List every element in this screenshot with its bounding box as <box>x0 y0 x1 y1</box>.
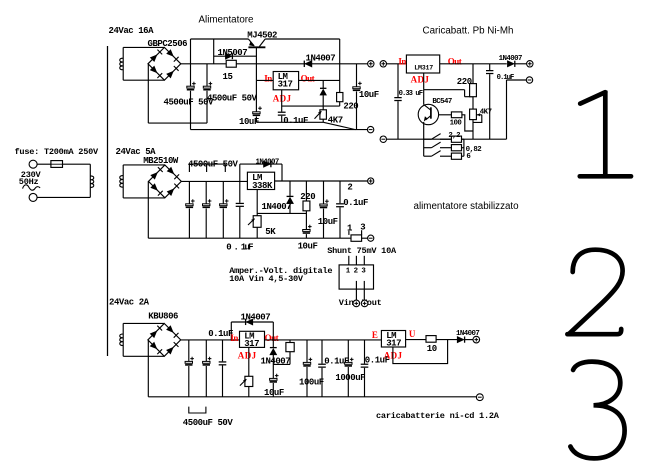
wire 0.33uF lower <box>397 101 399 139</box>
big digit 1 <box>580 91 631 177</box>
shunt body <box>351 235 362 241</box>
capacitor 100uF <box>303 358 312 367</box>
wire U5 out <box>406 339 426 341</box>
svg-text:E: E <box>372 330 378 340</box>
svg-text:2,2: 2,2 <box>448 132 460 140</box>
svg-text:0.1uF: 0.1uF <box>497 74 514 82</box>
svg-text:5K: 5K <box>265 227 276 237</box>
wire T2 left vertical <box>122 165 124 198</box>
terminal mid plus <box>368 178 374 184</box>
wire 4K7 wiper tail <box>473 115 481 123</box>
capacitor bot 0.1uF a <box>318 364 326 368</box>
wire In U1 <box>256 79 273 81</box>
svg-text:Shunt 75mV 10A: Shunt 75mV 10A <box>327 246 397 256</box>
terminal plus output 1 <box>368 61 374 67</box>
svg-text:24Vac 2A: 24Vac 2A <box>109 297 150 307</box>
wire pot U4 bottom <box>248 387 250 397</box>
svg-text:10uF: 10uF <box>318 217 338 227</box>
wire charger in <box>387 63 407 65</box>
wire switch stub 2 <box>424 147 432 149</box>
wire 4K7 U2 link <box>472 97 474 109</box>
wire shunt to minus <box>362 237 368 239</box>
svg-text:MB2510W: MB2510W <box>143 156 179 166</box>
wire mid cap2 upper <box>205 181 207 203</box>
wire bypass U4 left <box>230 322 232 340</box>
bracket tick 1 <box>188 164 190 172</box>
bridge rectifier MB2510W <box>149 165 182 198</box>
svg-text:0.33 uF: 0.33 uF <box>399 90 423 98</box>
bracket tick 3 <box>224 164 226 172</box>
wire botB 0.1uF upper <box>364 340 366 364</box>
capacitor mid 4500uF #2 <box>203 199 212 208</box>
capacitor 10uF output <box>353 82 362 92</box>
wire rail to U4 <box>181 339 240 341</box>
potentiometer U4 wiper <box>240 379 247 385</box>
diode 1N4007 charger out <box>507 61 514 67</box>
svg-text:4500uF 50V: 4500uF 50V <box>183 418 234 428</box>
capacitor 0.1uF charger <box>486 70 493 74</box>
svg-text:Out: Out <box>265 333 279 343</box>
wire 100uF lower <box>306 367 308 397</box>
wire botA 0.1uF upper <box>321 340 323 364</box>
wire 0.1uF lower <box>281 116 283 123</box>
wire 1000uF lower <box>347 367 349 397</box>
svg-text:BC547: BC547 <box>432 98 452 106</box>
wire 10uF out U3 upper <box>323 181 325 204</box>
wire cap1 lower <box>190 91 192 130</box>
wire 0.33uF upper <box>397 64 399 97</box>
wire res right 2 <box>462 147 464 149</box>
wire res common right <box>463 139 465 156</box>
terminal bot plus <box>473 336 480 343</box>
potentiometer 4K7 U2 wiper <box>477 113 482 116</box>
svg-text:1N4007: 1N4007 <box>499 55 522 63</box>
wire switch stub 3 <box>424 155 432 157</box>
svg-text:LM317: LM317 <box>414 65 433 72</box>
svg-text:1N4007: 1N4007 <box>256 159 279 167</box>
terminal charger input plus <box>380 61 386 67</box>
wire bot cap1 upper <box>188 340 190 362</box>
wire mains top a <box>37 163 51 165</box>
wire bridge2 minus drop <box>147 181 149 238</box>
potentiometer 4K7 U1 wiper <box>315 111 322 119</box>
diode 1N5007 <box>225 53 232 59</box>
wire riser to rail A at x190.5 <box>190 39 192 64</box>
resistor U4 body <box>286 343 294 352</box>
wire zener to ADJ line <box>322 95 324 110</box>
wire Out U1 <box>299 79 340 81</box>
wire 220 U2 top <box>472 64 474 84</box>
wire switch res link 2 <box>440 147 451 149</box>
wire bot 0.1uF upper <box>222 340 224 361</box>
wire Q1 emitter down <box>423 122 425 139</box>
resistor 220 U3 body <box>303 201 310 211</box>
svg-text:50Hz: 50Hz <box>19 177 39 187</box>
resistor bank R1 body <box>451 136 461 142</box>
svg-text:In: In <box>230 333 238 343</box>
wire mains top b <box>63 163 91 165</box>
wire mid cap3 upper <box>222 181 224 203</box>
wire 10 to diode <box>436 339 457 341</box>
capacitor 1000uF <box>345 358 354 367</box>
transistor Q1 BC547 <box>418 104 438 124</box>
svg-text:fuse: T200mA 250V: fuse: T200mA 250V <box>15 147 100 157</box>
terminal charger out plus <box>527 61 533 67</box>
divider line <box>107 46 109 356</box>
wire bot cap2 upper <box>205 340 207 362</box>
wire 0.1uF out drop <box>489 64 491 70</box>
wire diagonal to minus rail <box>323 122 355 129</box>
meter body <box>339 265 373 289</box>
wire T3 left vertical <box>122 323 124 356</box>
wire res U4 bottom <box>289 352 291 365</box>
terminal mains bottom <box>29 193 37 201</box>
wire ADJ node line U1 <box>282 105 340 107</box>
svg-text:GBPC2506: GBPC2506 <box>148 39 188 49</box>
svg-text:220: 220 <box>457 77 472 87</box>
bracket bot caps <box>189 407 206 413</box>
wire to charger plus <box>515 63 527 65</box>
wire switch stub 1 <box>424 138 432 140</box>
wire pot bottom <box>322 119 324 122</box>
svg-text:100: 100 <box>450 119 463 127</box>
wire charger bottom rail <box>387 138 507 140</box>
coil T3 secondary <box>120 334 123 346</box>
terminal mid minus <box>368 235 374 241</box>
capacitor mid 4500uF #3 <box>220 199 229 208</box>
capacitor C1 4500uF <box>187 82 196 91</box>
wire 100 to pot bottom <box>462 115 473 131</box>
wire meter out3 <box>363 281 365 300</box>
wire bot ground rail <box>148 396 476 398</box>
wire 5K bottom <box>256 227 258 238</box>
svg-text:10: 10 <box>427 344 437 354</box>
wire switch common <box>423 139 425 156</box>
svg-text:MJ4502: MJ4502 <box>247 31 277 41</box>
coil T2 secondary <box>120 176 123 188</box>
wire 10uF ADJ lower <box>305 234 307 238</box>
svg-text:alimentatore stabilizzato: alimentatore stabilizzato <box>414 201 520 212</box>
resistor 10 body <box>426 336 436 343</box>
wire mid cap1 upper <box>188 181 190 203</box>
wire meter in1 <box>348 256 350 265</box>
wire cap2 lower <box>206 91 208 123</box>
wire D U4 top <box>272 322 274 348</box>
svg-text:2: 2 <box>347 182 352 192</box>
wire bot 0.1uF lower <box>222 366 224 397</box>
potentiometer 4K7 U2 body <box>470 109 477 120</box>
wire mains right vertical <box>89 164 91 197</box>
svg-text:1000uF: 1000uF <box>335 373 365 383</box>
terminal charger out minus <box>526 77 532 83</box>
wire diode row <box>214 55 257 57</box>
wire bot cap2 lower <box>205 366 207 397</box>
capacitor 10uF U4 <box>270 374 279 383</box>
capacitor 10uF ADJ U3 <box>303 225 312 234</box>
svg-text:In: In <box>264 73 272 83</box>
wire cap1 4500uF vertical <box>190 64 192 86</box>
wire res U4 top <box>289 340 291 343</box>
wire bridge minus drop <box>147 64 149 123</box>
capacitor 10uF out U3 <box>320 199 329 208</box>
switch lever 3 <box>432 151 441 157</box>
wire U4 out rail <box>265 339 382 341</box>
wire charger minus <box>507 79 527 81</box>
wire ADJ pin U3 <box>256 190 258 216</box>
terminal charger minus left <box>380 136 386 142</box>
wire bridge3 minus drop <box>147 340 149 397</box>
wire switch res link 1 <box>440 138 451 140</box>
diode 1N4007 U4 out <box>270 348 277 355</box>
wire ADJ line U3 <box>257 212 306 214</box>
svg-text:Caricabatt. Pb Ni-Mh: Caricabatt. Pb Ni-Mh <box>423 26 514 37</box>
wire 10uF U4 lower <box>272 383 274 397</box>
switch lever 2 <box>432 142 441 148</box>
wire cap2 4500uF vertical <box>206 64 208 86</box>
wire D up link <box>289 181 291 196</box>
resistor bank R2 body <box>451 145 461 151</box>
capacitor mid 4500uF #1 <box>186 199 195 208</box>
wire mid 0.1uF upper <box>239 164 241 203</box>
wire ADJ horiz U2 <box>424 89 465 91</box>
svg-text:0.1uF: 0.1uF <box>208 329 233 339</box>
symbol AC sine <box>23 185 41 190</box>
svg-text:Out: Out <box>448 56 462 66</box>
wire T2 top <box>123 164 165 166</box>
svg-text:338K: 338K <box>252 181 273 191</box>
regulator U2 LM317 body <box>406 55 439 73</box>
svg-text:317: 317 <box>386 339 401 349</box>
wire rail to U3 <box>181 180 247 182</box>
capacitor bot 0.1uF in <box>219 361 227 365</box>
terminal mains top <box>29 160 37 168</box>
wire meter out2 <box>355 281 357 300</box>
capacitor 10uF input <box>253 106 262 116</box>
diode 1N4007 ADJ U3 <box>287 196 294 203</box>
wire 0.1uF out lower <box>489 74 491 139</box>
capacitor bot 4500uF #1 <box>185 357 194 366</box>
resistor 220 U2 body <box>470 84 477 97</box>
wire ADJ pin U2 <box>423 73 425 90</box>
regulator U5 LM317 body <box>381 331 405 348</box>
diode 1N4007 bot out <box>457 336 464 342</box>
wire mid ground rail <box>148 237 351 239</box>
wire switch res link 3 <box>440 155 451 157</box>
wire output node vertical <box>339 39 341 93</box>
terminal meter Vin <box>353 300 360 307</box>
wire 0.1uF out U3 lower <box>339 207 341 238</box>
wire botB 0.1uF lower <box>364 368 366 397</box>
wire rail A top right <box>265 38 340 40</box>
wire 4K7 bottom <box>472 120 474 140</box>
wire ground link A <box>148 122 207 124</box>
capacitor 0.1uF out U3 <box>336 203 344 207</box>
wire fuse inner <box>51 163 63 165</box>
wire Out U2 <box>440 63 507 65</box>
svg-text:1N4007: 1N4007 <box>241 312 271 322</box>
resistor 100 body <box>451 112 462 118</box>
switch lever 1 <box>432 134 441 140</box>
wire ADJ pin U1 <box>281 90 283 112</box>
wire mid cap3 lower <box>222 208 224 238</box>
svg-text:317: 317 <box>244 339 259 349</box>
potentiometer 5K wiper <box>248 219 255 225</box>
wire out 10uF drop <box>356 64 358 87</box>
wire charger minus drop <box>506 80 508 139</box>
resistor 15 ohm <box>226 60 236 67</box>
svg-text:100uF: 100uF <box>299 378 324 388</box>
wire 100uF upper <box>306 340 308 363</box>
terminal minus output 1 <box>367 126 373 132</box>
fuse body <box>51 161 63 168</box>
wire ADJ pin U4 <box>248 347 250 376</box>
wire rail B bridge+ to terminal <box>181 63 368 65</box>
wire bypass U4 top <box>231 321 273 323</box>
svg-text:ADJ: ADJ <box>238 350 257 360</box>
svg-text:caricabatterie ni-cd 1.2A: caricabatterie ni-cd 1.2A <box>376 411 500 421</box>
diode 1N4007 bypass U3 <box>264 161 271 167</box>
wire T3 top <box>123 322 164 324</box>
wire ADJ jog down <box>464 90 466 97</box>
wire 220 bottom to ADJ <box>339 102 341 106</box>
svg-text:1N4007: 1N4007 <box>262 202 292 212</box>
potentiometer 5K body <box>253 216 261 228</box>
svg-text:1 2 3: 1 2 3 <box>346 267 367 275</box>
resistor 220 U1 body <box>337 93 343 102</box>
svg-text:4500uF 50V: 4500uF 50V <box>207 93 258 103</box>
coil T1 secondary <box>120 58 123 70</box>
svg-text:KBU806: KBU806 <box>148 312 178 322</box>
svg-text:Out: Out <box>301 73 315 83</box>
capacitor 0.1uF ADJ U1 <box>278 112 286 116</box>
wire U3 out rail <box>275 180 368 182</box>
capacitor mid 0.1uF <box>236 203 244 207</box>
wire bypass right drop <box>281 164 283 181</box>
regulator U4 LM317 body <box>240 331 265 347</box>
bridge rectifier GBPC2506 <box>148 47 181 80</box>
wire 220 U3 to cap <box>305 211 307 230</box>
wire Q1 collector up <box>423 90 425 105</box>
wire ADJ jog right <box>465 96 473 98</box>
wire diode to plus <box>465 339 473 341</box>
wire res right 1 <box>462 138 464 140</box>
wire meter in3 <box>363 256 365 265</box>
wire zener top link <box>322 80 324 88</box>
big digit 2 <box>567 250 622 335</box>
capacitor C2 4500uF <box>203 82 212 91</box>
wire Q1 base <box>439 114 452 116</box>
wire ground line C <box>256 121 323 123</box>
svg-text:Alimentatore: Alimentatore <box>199 14 255 25</box>
wire ADJ loop U5 <box>393 340 448 364</box>
svg-text:3: 3 <box>360 223 365 233</box>
wire meter in2 <box>355 256 357 265</box>
svg-text:U: U <box>409 329 416 339</box>
wire D down link <box>289 204 291 214</box>
wire res U4 link <box>273 363 290 365</box>
wire shunt tick1 <box>348 231 350 235</box>
wire T2 bottom <box>123 197 165 199</box>
capacitor 0.33uF <box>394 97 401 101</box>
diode 1N4007 rail <box>304 61 312 67</box>
svg-text:317: 317 <box>278 80 293 90</box>
svg-text:10uF: 10uF <box>359 90 379 100</box>
wire 1000uF upper <box>347 340 349 363</box>
potentiometer U4 body <box>245 376 253 386</box>
regulator U1 LM317 body <box>273 72 298 90</box>
svg-text:Vin: Vin <box>339 298 354 308</box>
terminal bot minus <box>476 394 483 401</box>
wire shunt tick3 <box>361 230 363 235</box>
bridge rectifier KBU806 <box>148 324 181 357</box>
wire base-net left vertical <box>213 39 215 64</box>
wire 0.1uF out U3 upper <box>339 181 341 203</box>
wire res right 3 <box>462 155 464 157</box>
wire bypass U3 <box>240 163 282 165</box>
wire 10uF input cap drop <box>255 80 257 111</box>
wire T1 bottom to bridge <box>123 79 164 81</box>
svg-text:24Vac 16A: 24Vac 16A <box>109 26 155 36</box>
wire mains bottom <box>37 196 90 198</box>
diode D2 at U1 out <box>320 88 326 95</box>
wire 220 U3 top <box>305 181 307 201</box>
svg-text:10A Vin 4,5-30V: 10A Vin 4,5-30V <box>229 274 304 284</box>
wire mid 0.1uF lower <box>239 207 241 238</box>
wire bot cap1 lower <box>188 366 190 397</box>
wire botA 0.1uF lower <box>321 368 323 397</box>
big digit 3 <box>570 362 624 459</box>
svg-text:1N4007: 1N4007 <box>261 357 291 367</box>
wire T3 bottom <box>123 355 164 357</box>
resistor bank R3 body <box>451 153 461 159</box>
regulator U3 LM338K body <box>247 172 274 189</box>
svg-text:0 . 1uF: 0 . 1uF <box>226 243 253 253</box>
bracket tick 2 <box>206 164 208 172</box>
wire mid cap2 lower <box>205 208 207 238</box>
capacitor bot 0.1uF b <box>361 364 369 368</box>
svg-text:10uF: 10uF <box>298 242 318 252</box>
wire T1 left vertical <box>122 47 124 80</box>
wire out 10uF lower <box>356 91 358 129</box>
svg-text:0.1uF: 0.1uF <box>283 116 308 126</box>
svg-text:ADJ: ADJ <box>411 75 430 85</box>
wire rail A top <box>191 38 249 40</box>
svg-text:220: 220 <box>300 192 315 202</box>
svg-text:0.1uF: 0.1uF <box>343 198 368 208</box>
svg-text:In: In <box>398 56 406 66</box>
wire D U4 down <box>272 355 274 378</box>
svg-text:15: 15 <box>223 72 233 82</box>
wire MJ4502 base down <box>255 47 257 80</box>
wire mid cap1 lower <box>188 208 190 238</box>
transistor MJ4502 <box>248 39 265 47</box>
wire ground rail B' <box>191 129 368 131</box>
terminal meter Vout <box>361 300 368 307</box>
svg-text:0.1uF: 0.1uF <box>324 356 349 366</box>
capacitor bot 4500uF #2 <box>203 357 212 366</box>
coil T primary <box>90 176 93 188</box>
potentiometer 4K7 U1 body <box>320 110 327 119</box>
svg-text:10uF: 10uF <box>239 117 259 127</box>
wire 10uF out U3 lower <box>323 209 325 239</box>
wire T1 top to bridge <box>123 46 164 48</box>
diode 1N4007 bypass U4 <box>246 319 253 325</box>
wire 10uF lower <box>255 116 257 122</box>
bracket caps line <box>189 163 225 165</box>
